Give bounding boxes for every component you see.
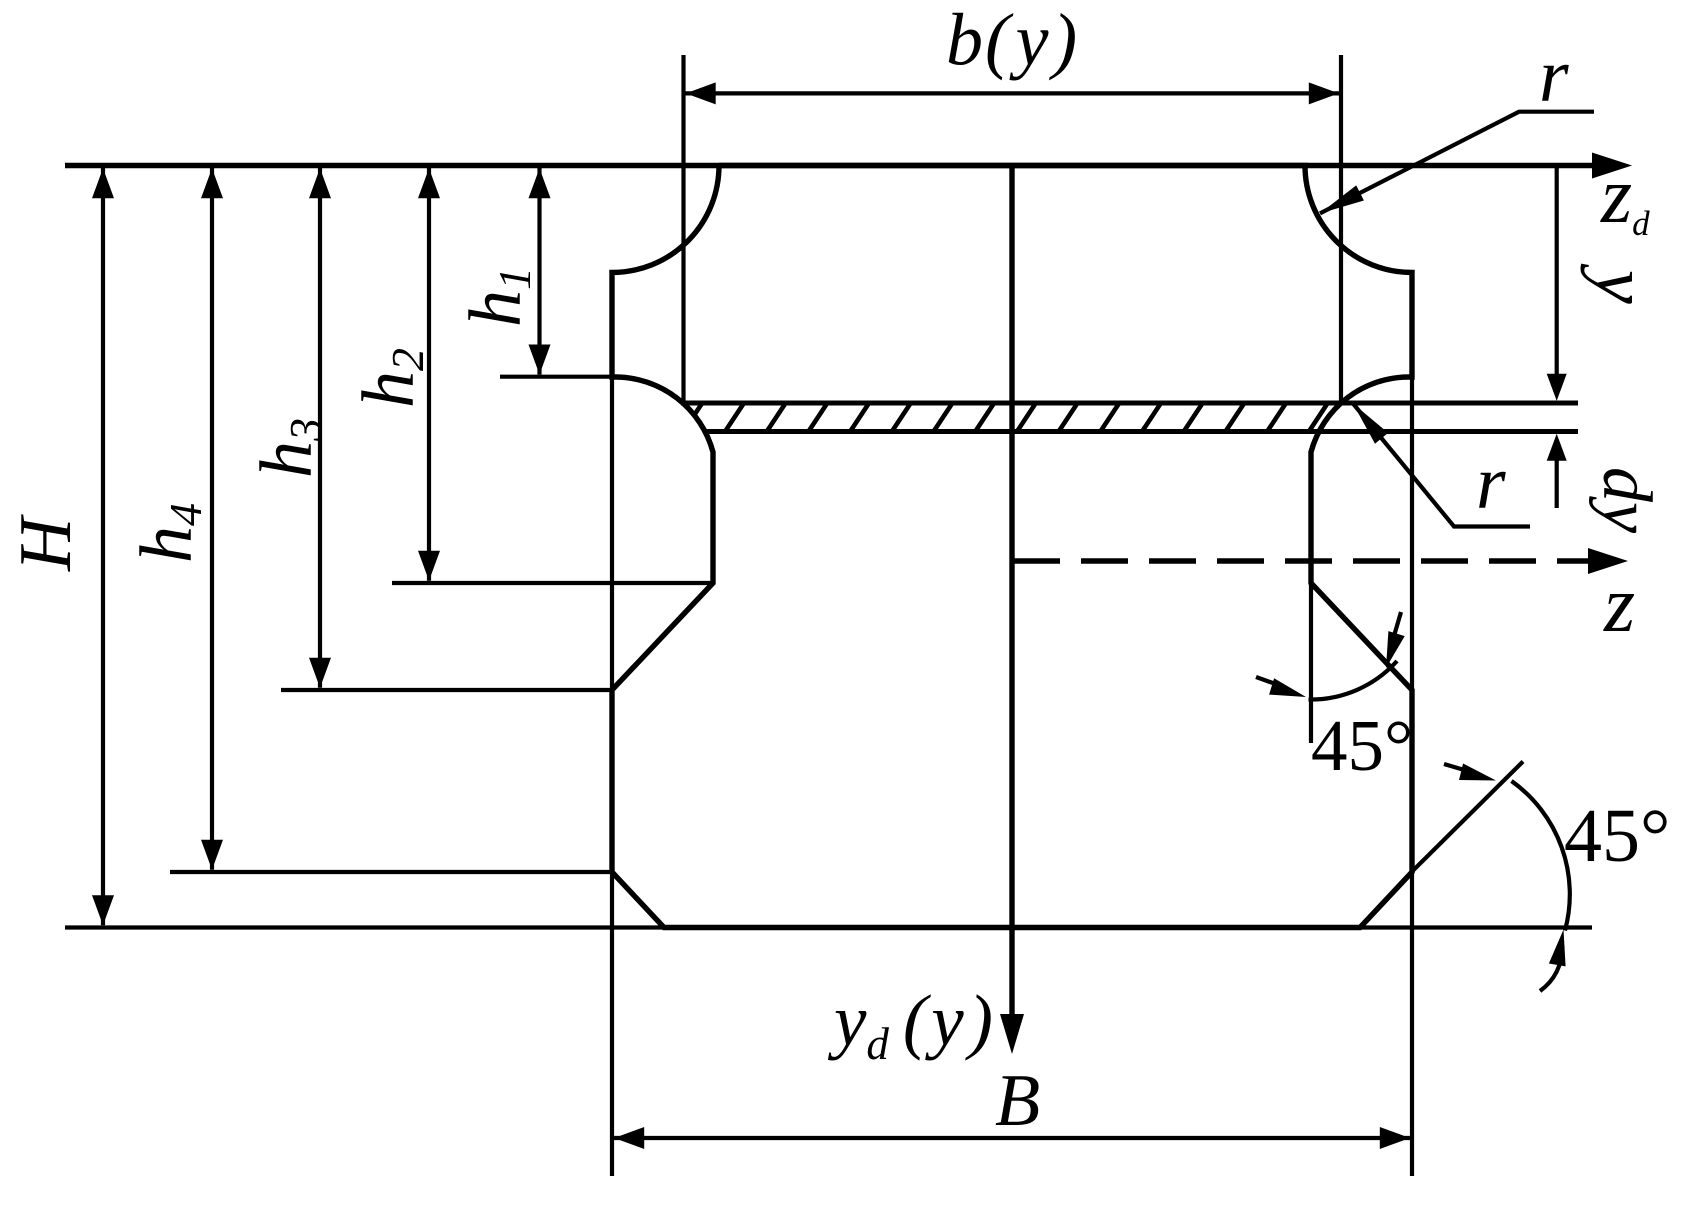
axis z (dashed horizontal through dy strip level, arrow right) [1013,558,1592,563]
svg-text:H: H [5,514,87,572]
svg-text:z: z [1603,561,1635,649]
dimension line h4 [210,168,214,870]
dimension line h2 [427,168,431,581]
svg-text:r: r [1476,441,1506,525]
right vertical extension line x=1412 [1410,377,1414,1176]
strip top boundary line y=403 [681,401,1578,406]
part outline (cross-section profile, thick) [612,166,1412,928]
reference line h4 level y=872 [170,870,614,874]
svg-text:yd(y): yd(y) [827,980,993,1069]
svg-text:y: y [1580,263,1664,304]
lower 45 deg arc [1512,781,1570,931]
svg-text:dy: dy [1588,467,1665,534]
svg-text:r: r [1539,34,1569,118]
upper 45 deg arrows [1256,677,1277,685]
dimension line h3 [318,168,322,688]
dimension line h1 [537,168,541,375]
svg-text:45°: 45° [1564,794,1670,878]
lower 45 deg arrows [1444,764,1466,771]
strip bottom boundary line y=431.5 [704,429,1578,434]
chamfer extension diagonal for lower 45 deg [1411,762,1523,873]
svg-text:B: B [995,1060,1040,1142]
dy dimension arrow (below strip, pointing up) [1555,460,1559,508]
dimension line H [101,168,105,925]
reference line h1 level y=376.7 [500,375,614,379]
b(y) extension line left x=683.5 [681,55,685,403]
bottom datum line (thin, full width, overlaps part bottom) [65,925,1592,929]
leader and label r (right web fillet at strip) [1353,404,1530,527]
b(y) dimension line [686,91,1340,95]
web extension line for upper 45 deg [1309,585,1313,743]
leader and label r (top right fillet) [1320,112,1594,214]
svg-text:45°: 45° [1311,705,1413,786]
left vertical extension line x=612 (rim edge down to B dimension) [610,377,614,1176]
B dimension line [614,1136,1410,1140]
b(y) extension line right x=1341 [1339,55,1343,403]
upper 45 deg arc [1309,661,1398,700]
axis y_d centerline (vertical, arrow down) [1009,166,1014,1019]
y dimension line (from z_d axis down to strip top) [1555,166,1559,375]
reference line h3 level y=690 [281,688,614,692]
axis z_d (top horizontal datum line with arrow) [65,163,1596,168]
reference line h2 level y=583 [392,581,713,585]
